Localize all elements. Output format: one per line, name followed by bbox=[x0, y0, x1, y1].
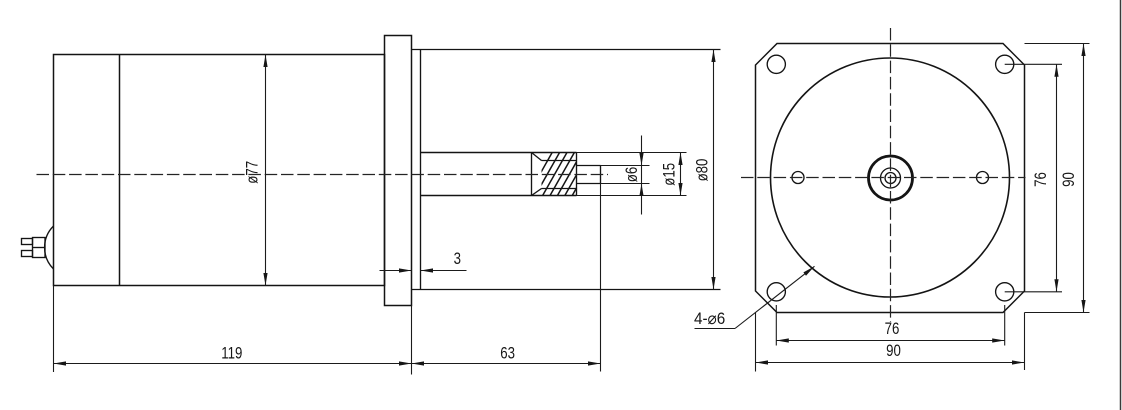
svg-text:76: 76 bbox=[885, 319, 900, 338]
gearbox housing circle diameter 80 bbox=[771, 58, 1010, 297]
dimension 76 vertical line bbox=[1056, 64, 1058, 291]
vertical centre line, front view bbox=[890, 28, 892, 322]
svg-text:63: 63 bbox=[500, 344, 515, 363]
worm root bottom line bbox=[542, 188, 577, 190]
svg-text:76: 76 bbox=[1032, 172, 1051, 187]
centre line, side view axis bbox=[37, 174, 609, 176]
shaft boss middle circle bbox=[881, 168, 901, 188]
shaft boss inner circle bbox=[885, 173, 896, 184]
diameter-80 housing top line and extension bbox=[412, 49, 721, 51]
diameter15 extension lines bbox=[577, 152, 687, 154]
motor end-cap joint line bbox=[119, 55, 121, 286]
extension line body left bbox=[53, 286, 55, 373]
output shaft bottom line bbox=[421, 195, 577, 197]
worm end line bbox=[576, 153, 578, 196]
svg-text:3: 3 bbox=[454, 250, 461, 269]
svg-text:90: 90 bbox=[886, 342, 901, 361]
dimension diameter77 line bbox=[265, 55, 267, 286]
extension lines for bottom 90 bbox=[755, 313, 757, 372]
svg-text:119: 119 bbox=[221, 344, 242, 363]
shaft end face bbox=[600, 166, 602, 184]
extension lines for vertical 90 bbox=[1025, 43, 1090, 45]
svg-text:4-⌀6: 4-⌀6 bbox=[694, 309, 725, 328]
svg-text:ø6: ø6 bbox=[623, 167, 642, 182]
extension line flange face bbox=[411, 306, 413, 375]
pilot shaft top line (diameter 6) bbox=[577, 165, 601, 167]
side hole left bbox=[792, 172, 804, 184]
terminal pin upper bbox=[22, 239, 33, 245]
dimension 76 bottom line bbox=[776, 340, 1004, 342]
worm root top line bbox=[542, 160, 577, 162]
dimension diameter15 line bbox=[680, 153, 682, 196]
drawing frame right border bbox=[1120, 0, 1122, 410]
svg-text:ø80: ø80 bbox=[693, 159, 712, 182]
corner hole bottom-left bbox=[767, 283, 785, 301]
dimension 119 and 63 line bbox=[54, 363, 601, 365]
diameter6 extension lines bbox=[601, 165, 650, 167]
worm chamfer top diagonal bbox=[532, 153, 542, 161]
leader line for 4 holes diameter 6 bbox=[695, 328, 736, 330]
corner hole top-left bbox=[767, 55, 785, 73]
side hole right bbox=[977, 172, 989, 184]
dimension 90 bottom line bbox=[756, 362, 1025, 364]
corner hole bottom-right bbox=[996, 283, 1014, 301]
dimension 90 vertical line bbox=[1083, 44, 1085, 313]
gearbox front face line bbox=[420, 50, 422, 290]
terminal block divider bbox=[33, 247, 46, 249]
dimension diameter6 line bbox=[641, 136, 643, 215]
terminal boss arc on rear cap bbox=[45, 226, 54, 269]
svg-text:90: 90 bbox=[1060, 172, 1079, 187]
terminal pin lower bbox=[22, 251, 33, 257]
corner hole top-right bbox=[996, 55, 1014, 73]
flange plate outline with chamfered corners (front view) bbox=[756, 44, 1025, 313]
extension line shaft end bbox=[600, 184, 602, 372]
extension lines for vertical 76 bbox=[1005, 63, 1062, 65]
dimension 3 left tail bbox=[380, 270, 412, 272]
dimension 3 right tail bbox=[421, 270, 467, 272]
worm chamfer start line bbox=[531, 153, 533, 196]
worm chamfer bottom diagonal bbox=[532, 189, 542, 196]
svg-text:ø15: ø15 bbox=[660, 163, 679, 186]
motor body (side view, diameter 77) bbox=[54, 55, 385, 286]
horizontal centre line, front view bbox=[741, 177, 1026, 179]
pilot shaft bottom line bbox=[577, 183, 601, 185]
dimension diameter80 line bbox=[713, 50, 715, 290]
diameter-80 housing bottom line and extension bbox=[412, 289, 721, 291]
output shaft top line (diameter 15) bbox=[421, 152, 577, 154]
shaft boss outer circle bbox=[869, 156, 913, 200]
svg-text:ø77: ø77 bbox=[243, 161, 262, 184]
mounting flange plate (90 square, side view) bbox=[385, 36, 412, 306]
terminal block bbox=[33, 238, 46, 258]
extension lines for bottom 76 bbox=[775, 305, 777, 346]
